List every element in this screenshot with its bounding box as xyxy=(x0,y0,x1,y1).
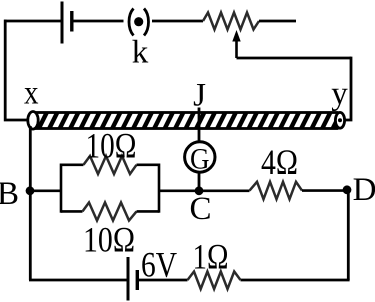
battery B2 (6V cell): long plate xyxy=(127,257,130,301)
rheostat Rh (zigzag) xyxy=(203,13,259,30)
bar right terminal (ellipse end cap) xyxy=(335,112,344,128)
key k (plug key, circle-dot symbol) xyxy=(129,9,149,36)
battery B1 (top cell): long plate xyxy=(61,2,64,44)
wire rheostat right stub xyxy=(259,20,296,23)
wire key to rheostat xyxy=(152,20,203,23)
jockey J wire through bar down to galvanometer xyxy=(198,108,201,143)
battery B2 (6V cell): short plate xyxy=(136,270,139,290)
node D xyxy=(343,185,352,194)
node B xyxy=(26,186,35,195)
svg-text:6V: 6V xyxy=(141,245,177,285)
resistor 10Ω (bottom branch) xyxy=(61,203,159,221)
wire battery to key xyxy=(72,20,124,23)
potentiometer wire bar x–y (hatched rod) xyxy=(36,110,342,130)
wire box to node C xyxy=(159,190,199,193)
resistor 10Ω (top branch) xyxy=(61,156,159,174)
bar left terminal (ellipse end cap) xyxy=(28,112,38,130)
svg-text:B: B xyxy=(0,176,19,212)
wire left lower vertical (bar left end down through B to bottom) xyxy=(29,126,32,280)
wire right vertical down to bar right terminal xyxy=(345,57,351,120)
svg-text:C: C xyxy=(189,191,211,227)
wire galvanometer to node C xyxy=(198,172,201,191)
wire right lower vertical (D down to bottom wire) xyxy=(347,190,350,280)
svg-text:10Ω: 10Ω xyxy=(83,220,135,260)
svg-text:G: G xyxy=(190,143,210,176)
resistor 4Ω xyxy=(250,182,303,199)
battery B1 (top cell): short plate xyxy=(70,11,73,32)
svg-text:10Ω: 10Ω xyxy=(86,126,137,166)
wire 4Ω to node D xyxy=(302,189,347,192)
resistor 1Ω (bottom) xyxy=(188,272,241,290)
parallel combination box: left edge xyxy=(60,164,63,213)
node C xyxy=(195,186,204,195)
rheostat wiper arrow xyxy=(232,30,240,58)
svg-text:y: y xyxy=(331,76,348,112)
wire wiper horizontal to right side xyxy=(237,57,352,60)
parallel combination box: right edge xyxy=(158,164,161,213)
wire top-left horizontal xyxy=(4,20,61,23)
svg-text:x: x xyxy=(24,75,39,112)
svg-text:D: D xyxy=(353,172,375,208)
svg-text:4Ω: 4Ω xyxy=(261,142,298,182)
wire C to 4Ω resistor xyxy=(199,190,250,193)
wire bottom right horizontal xyxy=(241,279,350,282)
wire battery to 1Ω xyxy=(137,279,187,282)
wire left vertical (top corner down to bar left terminal) xyxy=(5,20,27,120)
wire B to parallel box xyxy=(30,190,61,193)
wire bottom left horizontal xyxy=(29,279,127,282)
svg-text:k: k xyxy=(132,35,149,71)
svg-text:1Ω: 1Ω xyxy=(193,237,229,277)
galvanometer G xyxy=(185,142,215,176)
